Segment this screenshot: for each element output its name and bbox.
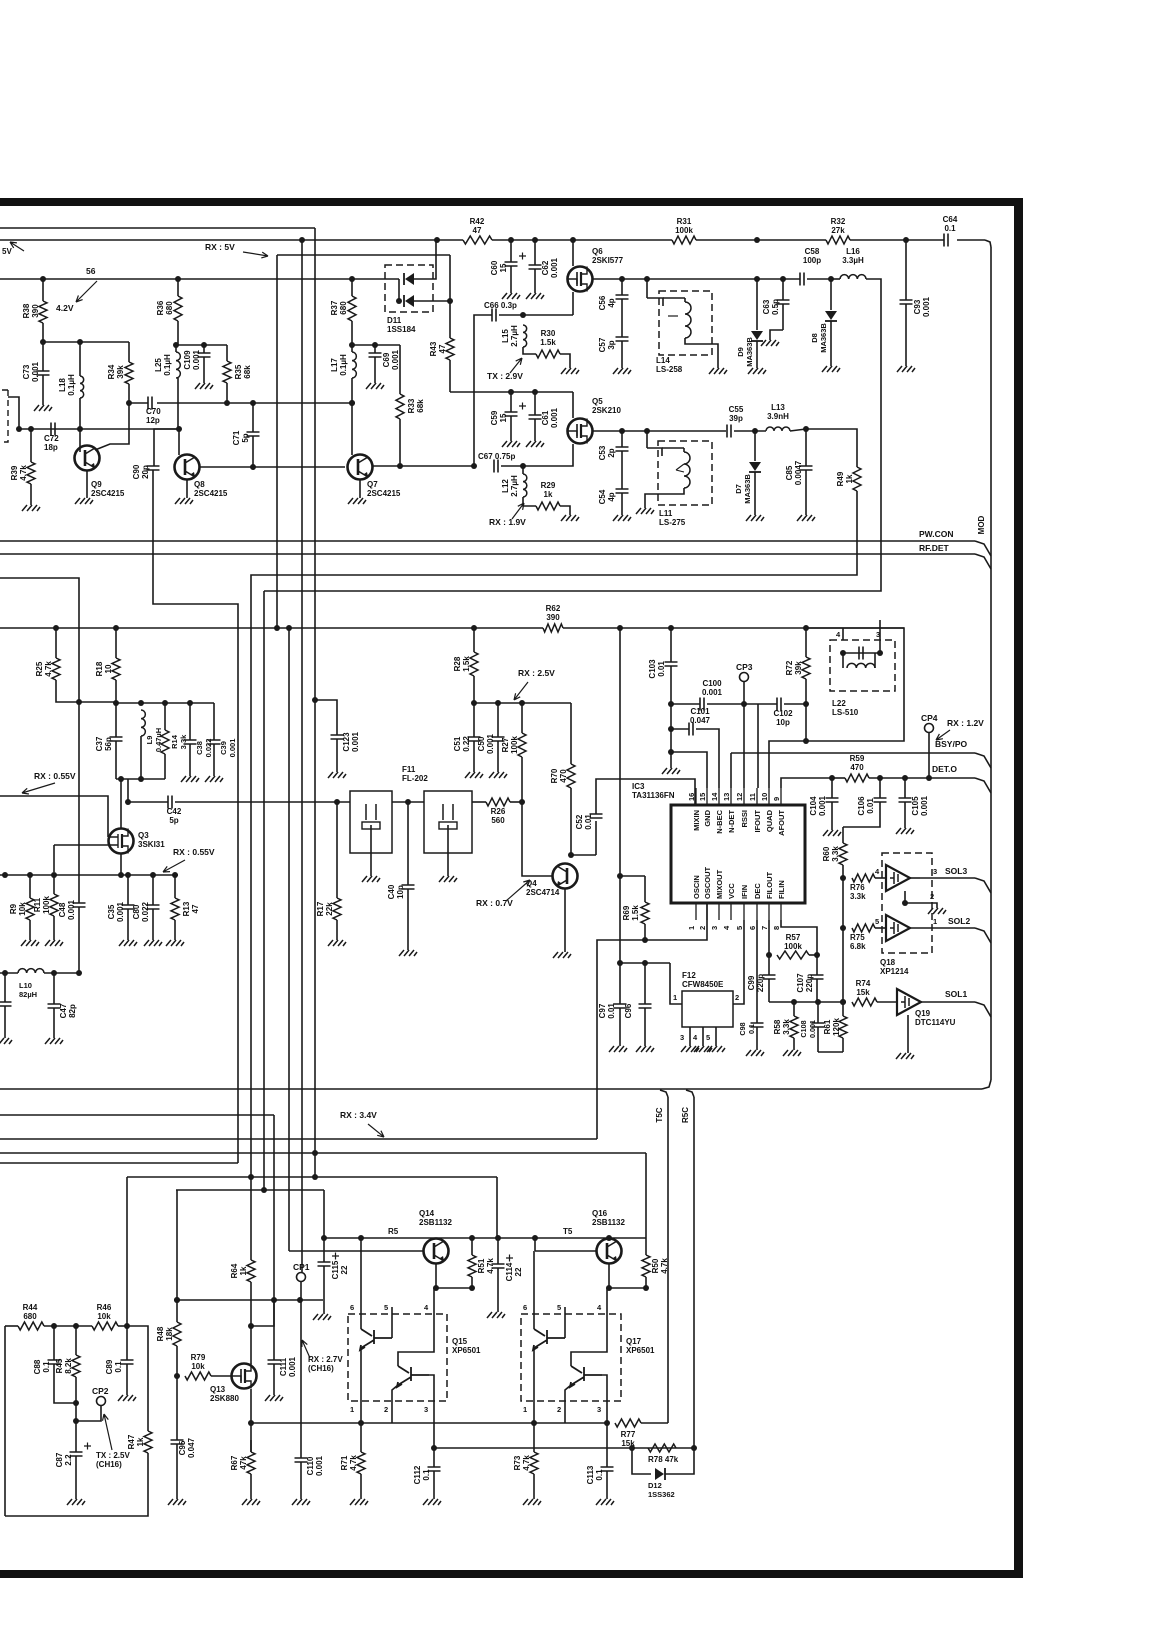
wire B+ rail y628b (563, 627, 904, 629)
svg-text:C39: C39 (219, 741, 228, 755)
svg-text:C60: C60 (490, 260, 499, 275)
wire D8 (830, 279, 832, 310)
SOL2 bus entry arc (975, 928, 991, 943)
wire C67 to Q5 (501, 465, 523, 467)
wire x79 lower (78, 907, 80, 973)
transistor Q15b (397, 1366, 429, 1387)
svg-text:6: 6 (748, 926, 757, 930)
ground D9 (748, 368, 766, 374)
arrow 5V pointer (10, 242, 24, 251)
svg-text:10p: 10p (776, 718, 790, 727)
wire x324 drop (323, 1190, 325, 1238)
svg-text:F12: F12 (682, 971, 696, 980)
svg-text:L14: L14 (656, 356, 670, 365)
wire R44-R46 (44, 1325, 92, 1327)
svg-text:22: 22 (514, 1267, 523, 1276)
svg-text:R64: R64 (230, 1263, 239, 1278)
wire C89 top (126, 1326, 128, 1360)
wire Q15 pin6 (360, 1238, 362, 1329)
wire into L14 (647, 298, 663, 306)
svg-text:D12: D12 (648, 1481, 662, 1490)
wire L14 coil top (684, 298, 686, 302)
wire DET.O a (832, 777, 845, 779)
svg-text:680: 680 (339, 301, 348, 315)
svg-text:MIXOUT: MIXOUT (715, 869, 724, 899)
svg-text:SOL2: SOL2 (948, 916, 970, 926)
arrow RX055b (163, 860, 185, 872)
svg-text:RX : 0.55V: RX : 0.55V (34, 771, 76, 781)
capacitor C89 (121, 1360, 134, 1364)
package box Q18 (882, 853, 932, 953)
wire R73 gnd (533, 1474, 535, 1499)
wire R38 low (42, 323, 44, 342)
wire C63 low (782, 304, 784, 330)
svg-text:0.1µH: 0.1µH (339, 354, 348, 376)
svg-text:9: 9 (772, 797, 781, 801)
capacitor C37 (110, 737, 123, 741)
wire R45 low (75, 1377, 77, 1421)
junction L22 inner (877, 650, 883, 656)
resistor R75 (852, 924, 875, 932)
junction Q4 collector (568, 852, 574, 858)
wire Q17 pin4 jog (571, 1307, 607, 1366)
svg-text:N-DET: N-DET (727, 810, 736, 833)
wire F12 pin2 to IFIN (733, 920, 744, 1004)
svg-text:0.001: 0.001 (920, 795, 929, 816)
junction C123 tap (312, 697, 318, 703)
wire R61 top (842, 1002, 844, 1016)
wire left-edge corner x79 (0, 578, 79, 903)
transistor Q4 (553, 864, 578, 889)
bus horizontal to left edge (0, 1088, 982, 1090)
ground C89 (118, 1395, 136, 1401)
svg-text:R43: R43 (429, 341, 438, 356)
capacitor C95 (171, 1440, 184, 1444)
junction source rail (150, 872, 156, 878)
svg-text:100k: 100k (42, 896, 51, 914)
svg-text:R61: R61 (823, 1019, 832, 1034)
ground C112 (423, 1499, 441, 1505)
svg-text:5: 5 (557, 1303, 561, 1312)
capacitor C114 electrolytic (492, 1264, 505, 1268)
svg-text:1.5k: 1.5k (540, 338, 556, 347)
wire R69 low (644, 924, 646, 940)
svg-text:C52: C52 (575, 814, 584, 829)
wire chain (842, 878, 844, 1002)
capacitor C59 electrolytic (519, 403, 526, 410)
arrow RX1.2 (936, 730, 950, 740)
svg-text:C110: C110 (306, 1456, 315, 1475)
junction Q13 drain (248, 1323, 254, 1329)
wire R11 gnd (53, 916, 55, 940)
svg-text:C123: C123 (342, 732, 351, 752)
wire Q3 gate2 feed (54, 844, 108, 846)
svg-text:47: 47 (473, 226, 482, 235)
wire C105 (904, 778, 906, 798)
capacitor C64 (944, 234, 948, 247)
ground C46 (0, 1038, 12, 1044)
svg-text:8: 8 (772, 926, 781, 930)
capacitor C53 (616, 447, 629, 451)
transistor Q15a (360, 1329, 392, 1350)
wire C71 (252, 403, 254, 432)
wire C97 gnd (619, 1008, 621, 1046)
wire AFOUT riser (781, 778, 832, 788)
capacitor C97 (614, 1004, 627, 1008)
ground R73 (523, 1499, 541, 1505)
svg-text:11: 11 (748, 793, 757, 801)
svg-text:T5: T5 (563, 1227, 573, 1236)
svg-text:C63: C63 (762, 299, 771, 314)
svg-text:1: 1 (350, 1405, 354, 1414)
junction R76 node (840, 875, 846, 881)
junction y1448 (629, 1445, 635, 1451)
svg-text:D7: D7 (734, 484, 743, 494)
junction R50 low (643, 1285, 649, 1291)
testpoint CP3 (740, 673, 749, 682)
wire R17 gnd (336, 920, 338, 940)
wire D8 gnd (830, 321, 832, 366)
wire Q4 coll to C52 (571, 854, 596, 856)
svg-text:XP6501: XP6501 (452, 1346, 481, 1355)
junction quad node (803, 738, 809, 744)
svg-text:1SS184: 1SS184 (387, 325, 416, 334)
wire C62 drop (534, 240, 536, 265)
wire C61 gnd (534, 419, 536, 441)
resistor R28 (470, 652, 478, 676)
wire Q17 pin4 feed (606, 1288, 608, 1307)
wire D12 branch (632, 1448, 651, 1474)
wire C71 low (252, 436, 254, 467)
wire C107 (816, 955, 818, 975)
diode D8 (825, 311, 837, 320)
wire Q18 pin2 link (905, 891, 937, 908)
svg-text:R49: R49 (836, 471, 845, 486)
svg-text:MA363B: MA363B (819, 323, 828, 353)
capacitor C51 (468, 737, 481, 741)
svg-text:C115: C115 (331, 1260, 340, 1279)
junction T5 rail (532, 1235, 538, 1241)
svg-text:3: 3 (424, 1405, 428, 1414)
svg-text:R76: R76 (850, 883, 865, 892)
ground C50 (489, 772, 507, 778)
svg-text:SOL3: SOL3 (945, 866, 967, 876)
svg-text:C42: C42 (167, 807, 182, 816)
transistor Q16 (597, 1239, 622, 1264)
svg-text:0.22: 0.22 (462, 736, 471, 752)
svg-text:C48: C48 (58, 902, 67, 917)
wire C42 to F11 (175, 801, 350, 803)
PW.CON bus entry arc (975, 541, 991, 556)
testpoint CP2 (97, 1397, 106, 1406)
svg-text:R29: R29 (541, 481, 556, 490)
junction R43 top (447, 298, 453, 304)
svg-text:14: 14 (710, 792, 719, 801)
resistor R14 (161, 730, 169, 754)
IC3 pin 4 stub (730, 903, 732, 920)
digital transistor Q19 (897, 989, 921, 1015)
wire pin13 riser (730, 753, 732, 788)
svg-text:4.7k: 4.7k (522, 1455, 531, 1471)
wire R33 low (399, 419, 401, 466)
capacitor C115 electrolytic (332, 1253, 339, 1260)
svg-text:10: 10 (104, 664, 113, 673)
wire Q4 base (522, 802, 553, 876)
capacitor C103 (665, 662, 678, 666)
junctions 4.2V rail (175, 276, 181, 282)
crystal F11a (366, 804, 376, 820)
wire Q14 emitter up (435, 1238, 437, 1239)
svg-text:RX : 1.9V: RX : 1.9V (489, 517, 526, 527)
svg-text:390: 390 (31, 304, 40, 318)
ground R58 (783, 1050, 801, 1056)
resistor R71 (357, 1452, 365, 1474)
svg-text:3.9nH: 3.9nH (767, 412, 789, 421)
wire R37 (351, 279, 353, 296)
svg-text:6: 6 (350, 1303, 354, 1312)
wire C90 down to jog (153, 470, 238, 1163)
svg-text:R75: R75 (850, 933, 865, 942)
ground C95 (168, 1499, 186, 1505)
wire C57 gnd (621, 341, 623, 368)
arrow TX2.9 (510, 358, 522, 373)
junction C112 node (431, 1445, 437, 1451)
wire R18 low (115, 680, 117, 703)
wire D9 lead (756, 279, 758, 330)
svg-text:4p: 4p (607, 492, 616, 501)
ground R67 (242, 1499, 260, 1505)
svg-text:0.5p: 0.5p (771, 299, 780, 315)
junction Q4 base (519, 799, 525, 805)
capacitor C52 (590, 814, 603, 818)
svg-text:0.1: 0.1 (422, 1469, 431, 1481)
svg-text:R44: R44 (23, 1303, 38, 1312)
ground C113 (596, 1499, 614, 1505)
ground D8 (822, 366, 840, 372)
svg-text:100p: 100p (803, 256, 821, 265)
wire Q17b collector to pin2 (565, 1385, 571, 1423)
resistor R62 (543, 624, 563, 632)
wire C35 gnd (127, 909, 129, 940)
junction R57 out (814, 952, 820, 958)
ground F12 pin4 (694, 1046, 712, 1052)
junction T5 rail (469, 1235, 475, 1241)
wire R36 (177, 279, 179, 296)
svg-text:0.1µH: 0.1µH (163, 354, 172, 376)
svg-text:56: 56 (86, 266, 96, 276)
wire Q15 pin5 lead (391, 1307, 393, 1338)
svg-text:2SC4215: 2SC4215 (194, 489, 228, 498)
resistor R25 (52, 658, 60, 680)
svg-text:C113: C113 (586, 1465, 595, 1484)
svg-text:2: 2 (557, 1405, 561, 1414)
IC3 pin 8 stub (780, 903, 782, 920)
svg-text:C80: C80 (132, 904, 141, 919)
wire R70 low (570, 788, 572, 855)
wire R72 low (805, 679, 807, 741)
wire left edge drop (4, 1326, 6, 1516)
resistor R11 (50, 894, 58, 916)
svg-text:2: 2 (735, 993, 739, 1002)
ground R11 (45, 940, 63, 946)
ground C59 (502, 441, 520, 447)
wire CP1 down (300, 1300, 302, 1423)
junction T5 rail (321, 1235, 327, 1241)
svg-text:LS-258: LS-258 (656, 365, 683, 374)
svg-text:1: 1 (523, 1405, 527, 1414)
junction R17 (334, 799, 340, 805)
svg-text:C99: C99 (747, 975, 756, 990)
junction D11 (396, 298, 402, 304)
svg-text:3.3µH: 3.3µH (842, 256, 864, 265)
junctions bias rail (40, 339, 46, 345)
svg-text:0.001: 0.001 (228, 739, 237, 758)
wire L22 left leg (842, 653, 844, 668)
arrow RX2.7 (302, 1340, 310, 1358)
svg-text:16: 16 (687, 793, 696, 801)
junction source rail (51, 872, 57, 878)
junction y628 (617, 625, 623, 631)
svg-text:LS-275: LS-275 (659, 518, 686, 527)
svg-text:R77: R77 (621, 1430, 636, 1439)
svg-text:5: 5 (384, 1303, 388, 1312)
junction CP3 node (741, 701, 747, 707)
svg-text:IFIN: IFIN (740, 885, 749, 899)
svg-text:0.022: 0.022 (204, 739, 213, 758)
transistor Q7 (348, 455, 373, 480)
wire RX3.4V line (0, 1138, 597, 1140)
wire C38 gnd (189, 744, 191, 776)
transistor Q5 (568, 419, 593, 444)
svg-text:L18: L18 (58, 378, 67, 392)
wire node stack (670, 704, 672, 752)
svg-text:3: 3 (597, 1405, 601, 1414)
junction C42 node (125, 799, 131, 805)
svg-text:4.7k: 4.7k (44, 661, 53, 677)
wire osc to R69 (620, 875, 645, 877)
wire R39 (30, 429, 32, 462)
junction D9 tap (754, 276, 760, 282)
wire C60 gnd (510, 266, 512, 293)
wire y1288a (436, 1287, 472, 1289)
wire C104 gnd (831, 802, 833, 830)
svg-text:C71: C71 (232, 430, 241, 445)
svg-text:0.001: 0.001 (486, 733, 495, 754)
capacitor C71 (247, 432, 260, 436)
svg-text:C47: C47 (59, 1003, 68, 1018)
svg-text:R79: R79 (191, 1353, 206, 1362)
IC3 pin 9 stub (780, 788, 782, 805)
wire C101 link (671, 728, 689, 730)
wire L14 out (685, 338, 718, 368)
junction R79 node (174, 1373, 180, 1379)
ground Q18 pin2 (928, 908, 946, 914)
ground C80 (144, 940, 162, 946)
svg-text:C70: C70 (146, 407, 161, 416)
wire x646 drop (645, 1153, 647, 1238)
svg-text:0.001: 0.001 (67, 899, 76, 920)
svg-text:R47: R47 (127, 1434, 136, 1449)
ground R39 (22, 505, 40, 511)
wire R61 low (842, 1038, 844, 1052)
wire Q17 pin5 lead (564, 1307, 566, 1338)
capacitor C56 (616, 295, 629, 299)
svg-text:0.01: 0.01 (584, 814, 593, 830)
wire C56 drop (621, 279, 623, 295)
wire y1288b (609, 1287, 646, 1289)
inductor L25 (176, 352, 180, 378)
svg-text:Q8: Q8 (194, 480, 205, 489)
svg-text:DET.O: DET.O (932, 764, 957, 774)
ground R9 (21, 940, 39, 946)
svg-text:4.2V: 4.2V (56, 303, 74, 313)
wire Q17 pin6 (533, 1251, 535, 1329)
wire input from shield (8, 397, 19, 429)
wire R25 (55, 628, 57, 658)
wire FILOUT drop (768, 920, 770, 955)
capacitor C99 (763, 975, 776, 979)
svg-text:15: 15 (499, 413, 508, 422)
svg-text:RF.DET: RF.DET (919, 543, 950, 553)
wire R43 (449, 255, 451, 338)
wire R48 low (176, 1346, 178, 1440)
capacitor C55 (727, 425, 731, 438)
SOL3 bus entry arc (975, 878, 991, 893)
transistor Q3 (109, 829, 134, 854)
svg-text:47: 47 (438, 344, 447, 353)
package box Q15 (348, 1314, 447, 1401)
junction L16 in (828, 276, 834, 282)
wire C69 gnd (374, 357, 376, 383)
ground R29 (561, 515, 579, 521)
wire y1300 (177, 1299, 323, 1301)
wire supply rail R32-C64 (850, 239, 944, 241)
wire F12 pin4 (702, 1027, 704, 1046)
svg-text:100k: 100k (784, 942, 802, 951)
wire C87 gnd (75, 1456, 77, 1499)
wire L12 to R29 (523, 497, 536, 506)
wire R38 (42, 279, 44, 301)
svg-text:N-BEC: N-BEC (715, 809, 724, 833)
svg-text:68k: 68k (243, 365, 252, 379)
filter F11 box2 (424, 791, 472, 853)
junction C103 node (668, 701, 674, 707)
svg-text:4.7k: 4.7k (349, 1455, 358, 1471)
svg-text:D8: D8 (810, 333, 819, 343)
resistor R70 (567, 764, 575, 788)
wire into L11 (647, 448, 662, 456)
wire drain to C111 (251, 1300, 274, 1326)
wire C89 gnd (126, 1364, 128, 1395)
ground C97 (609, 1046, 627, 1052)
svg-text:0.01: 0.01 (657, 661, 666, 677)
svg-text:C51: C51 (453, 736, 462, 751)
junction L17 base (349, 400, 355, 406)
capacitor C46 (edge) (0, 1002, 12, 1006)
svg-text:R48: R48 (156, 1326, 165, 1341)
wire Q15 pin4 jog (398, 1307, 434, 1366)
wire R28 low (473, 676, 475, 703)
svg-text:R31: R31 (677, 217, 692, 226)
wire C88 low (54, 1364, 76, 1403)
resistor R72 (802, 657, 810, 679)
resistor R69 (641, 902, 649, 924)
wire L25 to Q8 base (177, 378, 179, 429)
wire CP1 stub (300, 1282, 302, 1300)
wire R74 out (877, 1001, 897, 1003)
junction x264 (261, 1187, 267, 1193)
ground C38 (181, 776, 199, 782)
